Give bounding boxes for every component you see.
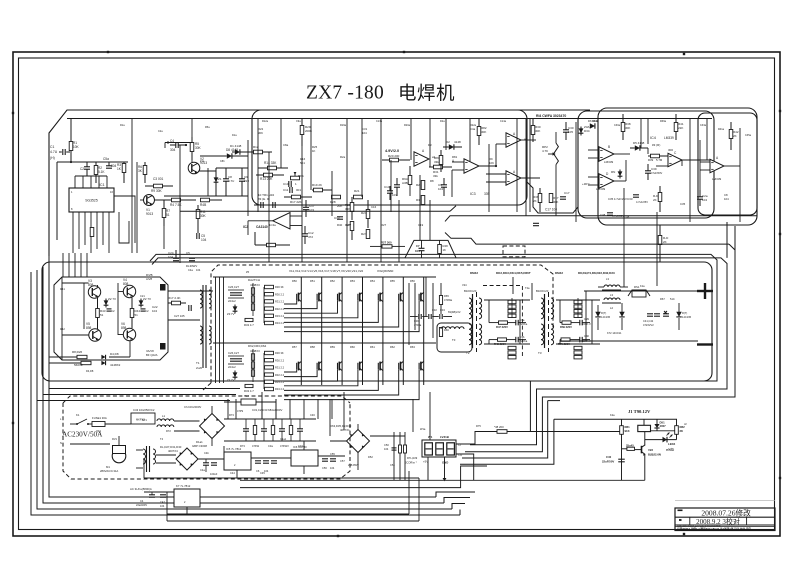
svg-text:K72 14C191: K72 14C191 — [607, 331, 622, 335]
IGBT unit at x382 — [284, 343, 383, 390]
control board outline top-left chamfer — [49, 110, 590, 256]
scatter labels top band 2 — [120, 120, 752, 163]
svg-text:R33 2.2: R33 2.2 — [275, 380, 285, 384]
vertical wire x192 long — [191, 119, 193, 138]
resistor R12 — [246, 145, 272, 154]
svg-text:4148X2: 4148X2 — [110, 363, 121, 367]
svg-text:IC3: IC3 — [470, 192, 476, 196]
svg-text:#3 (E. 9): #3 (E. 9) — [258, 197, 270, 201]
svg-text:C2: C2 — [111, 309, 115, 313]
svg-text:R48 220V: R48 220V — [494, 342, 506, 346]
svg-text:R30a: R30a — [592, 120, 599, 123]
svg-text:R7L,R29: R7L,R29 — [407, 456, 418, 460]
IGBT unit at x342 — [284, 343, 342, 385]
svg-text:C3a: C3a — [268, 444, 273, 448]
zener Z2a — [104, 297, 116, 308]
resistor R34 RG — [533, 188, 542, 212]
gate network DA2TCH R32 — [244, 318, 254, 327]
svg-text:C4b: C4b — [204, 451, 209, 455]
svg-text:R20 200: R20 200 — [388, 154, 400, 158]
wire aux distribution — [144, 452, 258, 492]
wire rail y196 — [164, 195, 248, 197]
svg-text:C4a: C4a — [188, 268, 193, 272]
resistor R41 — [674, 114, 684, 140]
resistor R39 — [648, 154, 668, 162]
svg-text:808: 808 — [88, 283, 94, 287]
bottom long rails — [144, 459, 419, 521]
Th4 contact — [224, 394, 276, 405]
svg-text:C30a: C30a — [614, 124, 621, 127]
svg-text:GND: GND — [442, 461, 448, 465]
svg-text:30K: 30K — [258, 131, 263, 135]
resistor R3 — [117, 162, 126, 183]
svg-text:T1: T1 — [196, 361, 200, 365]
display pin labels — [423, 443, 463, 465]
svg-text:C1: C1 — [50, 145, 54, 149]
svg-text:R8,R26: R8,R26 — [72, 350, 83, 354]
svg-text:Z3 7V: Z3 7V — [227, 378, 235, 382]
svg-text:D8,D9,P4,D8,D22,D32,D23: D8,D9,P4,D8,D22,D32,D23 — [578, 271, 615, 275]
svg-text:C27 105: C27 105 — [174, 314, 185, 318]
output terminal plus — [697, 283, 713, 299]
gate network D62,D63,D64 R32 — [244, 384, 254, 393]
svg-text:47KWV: 47KWV — [280, 444, 289, 448]
svg-text:C14a: C14a — [500, 120, 507, 123]
IGBT unit at x362 — [284, 343, 363, 386]
svg-text:C39: C39 — [584, 317, 589, 321]
svg-text:QF1: QF1 — [96, 429, 102, 433]
svg-text:C21: C21 — [140, 294, 145, 298]
svg-text:472: 472 — [308, 235, 313, 239]
svg-text:C1a1: C1a1 — [280, 437, 287, 441]
resistor R26a — [402, 166, 412, 196]
svg-text:R30 2.2: R30 2.2 — [275, 358, 285, 362]
gate network D62,D63,D64 zener — [227, 371, 237, 383]
svg-text:C41,C42: C41,C42 — [643, 319, 654, 323]
resistor R82 — [675, 419, 685, 439]
driver transistor VB — [146, 344, 165, 358]
diode D51 — [654, 419, 666, 431]
driver transistor VA — [146, 273, 165, 290]
svg-text:R62: R62 — [390, 345, 395, 349]
svg-text:280VAC/0.31A: 280VAC/0.31A — [100, 469, 118, 473]
wire T2 T3 link verticals — [513, 277, 592, 344]
display LO wire — [456, 454, 474, 480]
svg-text:日期2008.9 比例1:1 图号ZX7-180-01 共1: 日期2008.9 比例1:1 图号ZX7-180-01 共1张第1张 设计 校对… — [677, 527, 751, 531]
svg-text:R17 22K: R17 22K — [290, 200, 302, 204]
svg-text:LV31B: LV31B — [440, 435, 449, 439]
pot RP2 with arrow — [542, 132, 558, 176]
res cap after aux bridge — [370, 435, 405, 437]
T3 diode stack upper — [574, 298, 582, 318]
resistor R38t — [621, 114, 631, 140]
svg-text:IC2: IC2 — [243, 225, 248, 229]
svg-text:C50: C50 — [384, 443, 389, 447]
control board rounded box far right — [698, 113, 757, 215]
aux bridge right D63 — [330, 424, 370, 460]
svg-text:C13: C13 — [334, 216, 340, 220]
svg-text:104: 104 — [201, 238, 207, 242]
svg-text:304: 304 — [111, 164, 117, 168]
svg-text:SG3525: SG3525 — [85, 199, 98, 203]
svg-text:L2: L2 — [610, 306, 614, 310]
left wrap vertical x49 — [49, 256, 436, 497]
svg-text:C40: C40 — [606, 455, 612, 459]
node junction — [70, 161, 72, 163]
svg-text:Th4: Th4 — [244, 394, 249, 398]
IGBT unit at x423 — [284, 277, 424, 343]
svg-text:D2: D2 — [446, 140, 450, 144]
svg-text:51: 51 — [135, 313, 139, 317]
relay R81 branch — [620, 419, 630, 480]
svg-text:D4,D8: D4,D8 — [86, 369, 94, 373]
svg-text:R32 2.2: R32 2.2 — [275, 307, 285, 311]
svg-text:C44: C44 — [230, 471, 235, 475]
opamp IC2 CA3140 — [243, 213, 290, 229]
snubber C41 C42 — [643, 314, 660, 327]
bump trapezoid outline — [405, 240, 456, 257]
svg-text:IC6 UA780: IC6 UA780 — [293, 445, 307, 449]
wire mid rails to bases — [63, 253, 87, 277]
svg-text:R72: R72 — [166, 429, 171, 433]
motor M1 — [100, 436, 126, 473]
title block frame — [675, 500, 775, 530]
svg-text:C8b: C8b — [220, 160, 225, 163]
capacitor C38b — [600, 213, 624, 218]
zener Z2b — [139, 297, 151, 308]
IGBT unit at x403 — [284, 277, 403, 343]
bridge rectifier DL 4007X4 — [156, 445, 224, 470]
freewheel diode D71 — [595, 305, 610, 330]
wire vertical x302mid — [301, 146, 303, 262]
svg-text:T3: T3 — [538, 351, 542, 355]
resistor R29 top — [300, 119, 312, 147]
output choke L3 — [598, 285, 628, 297]
svg-text:C19: C19 — [418, 223, 424, 227]
transistor V6 — [121, 322, 136, 341]
wire IC3 output net — [479, 140, 536, 167]
capacitor C2a — [697, 190, 708, 206]
svg-text:AC 3L/Fa(5800)A: AC 3L/Fa(5800)A — [130, 487, 152, 491]
divider bump box — [527, 182, 578, 213]
gate network DA2TCH resistor stack — [264, 285, 285, 325]
wire vertical x332 — [331, 171, 333, 216]
T3 secondary rails — [556, 300, 600, 344]
svg-text:V23: V23 — [648, 448, 653, 452]
svg-text:R27: R27 — [381, 223, 387, 227]
diode D2 — [443, 140, 462, 150]
svg-text:R32 4.7: R32 4.7 — [244, 389, 254, 393]
svg-text:C5a: C5a — [103, 157, 109, 161]
dashed connector rect — [503, 246, 525, 257]
regulator IC6 UA780 — [291, 445, 318, 474]
capacitor C14 — [384, 185, 397, 200]
svg-text:R75: R75 — [476, 424, 481, 428]
driver coupling network — [168, 291, 213, 320]
wire vertical x624b — [623, 188, 625, 287]
svg-text:D3: D3 — [428, 143, 432, 147]
svg-text:A/V8: A/V8 — [146, 277, 153, 281]
svg-text:(H): (H) — [50, 156, 55, 160]
capacitor C39 — [645, 164, 663, 180]
T3 branch2 R70 — [558, 334, 591, 346]
svg-text:2K: 2K — [733, 134, 737, 138]
wire V2 emitter to zener rail — [199, 168, 248, 196]
svg-text:T2: T2 — [466, 351, 470, 355]
resistor R21 — [354, 189, 363, 199]
svg-text:R32 4.7: R32 4.7 — [244, 323, 254, 327]
resistor R66 right lower — [439, 328, 449, 337]
resistor R17 — [284, 195, 312, 204]
wire vertical x657b — [656, 212, 658, 286]
resistor R20 — [382, 154, 410, 162]
svg-text:B10OC20: B10OC20 — [464, 289, 477, 293]
output minus bus — [560, 340, 698, 342]
output choke L2 — [602, 298, 621, 310]
svg-text:+5V: +5V — [423, 460, 428, 464]
opamp IC4-B — [599, 145, 614, 164]
svg-text:R30 3K: R30 3K — [275, 285, 284, 289]
T2 secondary rails — [484, 300, 530, 344]
svg-text:B(8)22.6N: B(8)22.6N — [648, 453, 661, 457]
capacitor pair C6 C7 — [254, 202, 283, 208]
svg-text:R14 33K: R14 33K — [264, 161, 277, 165]
svg-text:1K: 1K — [443, 248, 447, 252]
output plus bus — [584, 290, 698, 292]
vertical wire x164 — [163, 226, 165, 249]
svg-text:B10OC20: B10OC20 — [536, 289, 549, 293]
wire push-pull rails — [62, 277, 124, 360]
svg-text:47P9: 47P9 — [237, 409, 244, 413]
resistor R8a below — [72, 350, 87, 359]
svg-text:D1a: D1a — [232, 134, 237, 137]
svg-text:R/VB: R/VB — [146, 273, 153, 277]
wire vertical x740 — [739, 128, 741, 222]
svg-text:4.7K: 4.7K — [542, 149, 548, 153]
display GND wire with arrow — [443, 457, 447, 481]
svg-text:C39: C39 — [651, 167, 657, 171]
svg-text:R66: R66 — [444, 328, 449, 332]
svg-text:22uF/50V: 22uF/50V — [602, 460, 614, 464]
resistor R82t — [477, 119, 487, 146]
wire V1 base — [140, 199, 144, 201]
vertical wire x132 — [131, 119, 133, 254]
capacitor C47 — [160, 495, 166, 508]
svg-text:C38: C38 — [624, 215, 630, 219]
svg-text:R57: R57 — [292, 345, 297, 349]
diode D73 — [676, 303, 691, 330]
svg-text:RN: RN — [611, 170, 615, 174]
N4 top stepped wire — [445, 233, 729, 245]
T2 branch1 R47 C3a — [489, 318, 528, 329]
svg-text:223: 223 — [244, 179, 249, 183]
main transformer T3 — [536, 289, 554, 355]
svg-text:R31 2.2: R31 2.2 — [275, 300, 285, 304]
T2 diode stack lower — [508, 346, 516, 359]
svg-text:4148X3: 4148X3 — [250, 283, 260, 287]
svg-text:C14: C14 — [384, 185, 390, 189]
svg-text:RP1: RP1 — [298, 174, 304, 178]
svg-text:C13a: C13a — [376, 120, 383, 123]
wrap wire N5 top stub — [548, 400, 560, 402]
svg-text:R61: R61 — [370, 345, 375, 349]
svg-text:C26,C27: C26,C27 — [228, 285, 239, 289]
svg-text:Z3 7V: Z3 7V — [227, 312, 235, 316]
AC input dashed border — [63, 396, 350, 403]
resistor R65 right of rows — [439, 283, 452, 314]
svg-text:R34 2.2: R34 2.2 — [275, 321, 285, 325]
svg-text:R54: R54 — [370, 279, 375, 283]
svg-text:IC4: IC4 — [650, 136, 656, 140]
diode D6 top — [588, 119, 599, 129]
wire below octagon — [49, 341, 130, 363]
IGBT unit at x342 — [284, 277, 342, 343]
svg-text:R27 300: R27 300 — [381, 241, 392, 245]
svg-text:14C195: 14C195 — [601, 315, 611, 319]
filter inductor L1 — [155, 414, 176, 427]
resistor R24 — [361, 200, 370, 228]
IC1 top pins — [75, 176, 107, 188]
svg-text:B: B — [608, 145, 610, 149]
display left resistor R7L — [399, 445, 402, 453]
main transformer T2 — [464, 289, 482, 355]
svg-text:C2: C2 — [145, 309, 149, 313]
wire V2 collector — [191, 160, 193, 163]
svg-text:R60: R60 — [350, 345, 355, 349]
svg-text:D52: D52 — [368, 455, 373, 459]
svg-text:47KW: 47KW — [252, 444, 260, 448]
diode D4 pair — [101, 352, 120, 367]
wire H net horizontal — [57, 161, 128, 163]
left wrap vertical x43 — [43, 267, 444, 503]
svg-text:DA2TCH: DA2TCH — [248, 278, 260, 282]
svg-text:R20a: R20a — [404, 124, 411, 127]
svg-text:K7 7L.7812: K7 7L.7812 — [176, 484, 191, 488]
T3 diode stack lower — [574, 346, 582, 359]
opamp IC4-D — [582, 172, 614, 191]
svg-text:A3B: A3B — [402, 181, 408, 185]
IGBT unit at x423 — [284, 343, 424, 400]
svg-text:R4B: R4B — [200, 203, 206, 207]
resistor R43r — [729, 122, 739, 150]
svg-text:226K.V: 226K.V — [582, 322, 591, 326]
svg-text:898: 898 — [86, 326, 92, 330]
diode D8 — [200, 148, 248, 159]
resistor R26 below — [74, 361, 91, 367]
svg-text:D62,D63,D64: D62,D63,D64 — [248, 344, 267, 348]
svg-text:C35a: C35a — [745, 134, 752, 137]
svg-text:电焊机: 电焊机 — [398, 84, 455, 105]
svg-text:RI4 CWFA 3023470: RI4 CWFA 3023470 — [536, 114, 566, 118]
svg-text:R41: R41 — [60, 287, 65, 291]
snubber cap bank — [224, 419, 316, 441]
svg-text:IC5 7L.7812: IC5 7L.7812 — [226, 447, 242, 451]
wire vertical x648r — [647, 119, 649, 145]
svg-text:R9 30K: R9 30K — [151, 189, 163, 193]
svg-text:R42: R42 — [60, 327, 65, 331]
capacitor C2n — [141, 309, 150, 313]
svg-text:104: 104 — [362, 131, 367, 135]
svg-text:300: 300 — [668, 148, 673, 152]
regulator IC5 7812 — [224, 447, 251, 478]
node at C4 — [185, 144, 187, 146]
svg-text:C17: C17 — [346, 223, 352, 227]
mid to bottom drop verticals — [228, 399, 332, 419]
svg-text:C45: C45 — [260, 471, 265, 475]
svg-text:RS1: RS1 — [634, 285, 640, 289]
svg-text:472X2V2: 472X2V2 — [643, 323, 654, 327]
svg-text:104: 104 — [330, 466, 335, 470]
svg-text:R39: R39 — [648, 158, 654, 162]
resistor R15 feedback — [255, 232, 290, 247]
svg-text:51: 51 — [100, 313, 104, 317]
svg-text:91K: 91K — [625, 429, 630, 433]
svg-text:T2a: T2a — [525, 286, 530, 290]
svg-text:DM42: DM42 — [555, 271, 563, 275]
T2 secondary dashed box — [483, 286, 522, 359]
aux transformer T4 — [130, 446, 156, 491]
transistor V5 — [86, 322, 101, 341]
svg-text:LM309: LM309 — [596, 187, 606, 191]
svg-text:10K: 10K — [73, 145, 80, 149]
svg-text:1C2a: 1C2a — [269, 223, 276, 227]
IGBT unit at x382 — [284, 277, 383, 343]
capacitor C12 — [302, 226, 314, 244]
svg-text:D5 4148: D5 4148 — [633, 141, 645, 145]
svg-text:69(D8)xX2: 69(D8)xX2 — [448, 310, 461, 314]
opamp IC4-C — [668, 151, 682, 167]
left wrap vertical x31 — [31, 272, 460, 515]
svg-text:105: 105 — [568, 130, 573, 134]
svg-text:GBP C3008: GBP C3008 — [192, 444, 207, 448]
IGBT unit at x301 — [284, 343, 301, 385]
svg-text:C7: C7 — [416, 244, 420, 248]
wire vertical x556b — [555, 176, 557, 216]
svg-text:R53: R53 — [350, 279, 355, 283]
caps after IC5 — [251, 458, 291, 473]
svg-text:R67: R67 — [660, 297, 665, 301]
wire vertical x381 — [380, 119, 382, 263]
svg-text:4148X3: 4148X3 — [250, 349, 260, 353]
svg-text:C33a: C33a — [700, 124, 707, 127]
capacitor C15 — [394, 178, 400, 196]
svg-text:R(T): R(T) — [682, 311, 687, 315]
capacitor C13 — [334, 216, 343, 220]
capacitor C40 — [602, 455, 625, 464]
capacitor C24 — [168, 250, 179, 261]
svg-text:FUSE1 30A: FUSE1 30A — [92, 416, 107, 420]
svg-text:2K: 2K — [533, 199, 537, 203]
wire IC3 input feed — [452, 162, 464, 197]
control board rounded box IC3 region — [252, 110, 527, 205]
svg-text:4007X4: 4007X4 — [168, 449, 178, 453]
svg-text:22K: 22K — [678, 126, 683, 130]
zener D34 — [611, 170, 622, 179]
capacitor C9 — [239, 168, 249, 196]
svg-text:R21: R21 — [354, 189, 360, 193]
title block small header marks — [678, 510, 683, 520]
svg-text:47uF/50V: 47uF/50V — [651, 171, 663, 175]
vertical links right of rows — [409, 277, 433, 345]
diode D5 — [630, 141, 648, 151]
svg-text:R41a: R41a — [718, 128, 725, 131]
svg-text:R34 2.2: R34 2.2 — [275, 387, 285, 391]
net label H left margin — [50, 145, 58, 160]
wrap wire N5 — [462, 401, 548, 458]
wire IC3-C output — [486, 174, 540, 182]
svg-text:22a/400V: 22a/400V — [136, 503, 147, 507]
svg-text:51C: 51C — [670, 297, 675, 301]
